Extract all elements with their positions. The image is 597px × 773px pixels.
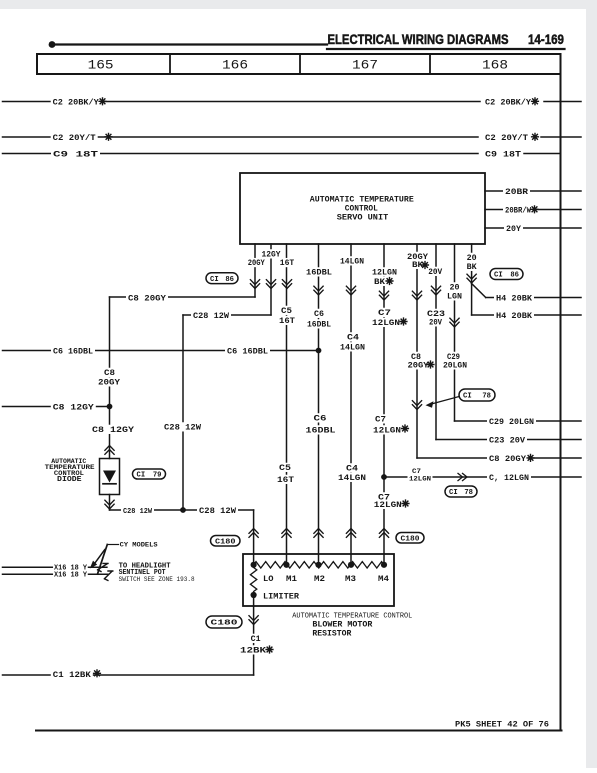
svg-text:14LGN: 14LGN (338, 474, 366, 483)
svg-text:C4: C4 (346, 465, 358, 474)
svg-text:20BR/W: 20BR/W (505, 206, 532, 216)
svg-text:C2 20BK/Y: C2 20BK/Y (53, 98, 100, 108)
svg-text:C6: C6 (314, 310, 324, 319)
svg-text:M4: M4 (378, 575, 389, 584)
svg-text:C28 12W: C28 12W (199, 506, 237, 516)
svg-text:20V: 20V (429, 319, 442, 328)
svg-text:20GY: 20GY (98, 379, 120, 388)
svg-text:CONTROL: CONTROL (345, 205, 378, 214)
svg-text:86: 86 (510, 272, 519, 280)
svg-text:H4 20BK: H4 20BK (496, 294, 533, 304)
svg-text:ELECTRICAL WIRING DIAGRAMS: ELECTRICAL WIRING DIAGRAMS (328, 32, 509, 47)
svg-text:CI: CI (494, 272, 503, 280)
svg-text:20LGN: 20LGN (443, 362, 467, 371)
svg-text:20V: 20V (428, 268, 442, 277)
svg-text:86: 86 (225, 276, 234, 284)
svg-text:C28 12W: C28 12W (123, 508, 152, 516)
svg-text:16DBL: 16DBL (306, 269, 332, 278)
svg-text:C8 12GY: C8 12GY (92, 426, 134, 435)
svg-text:CI: CI (463, 393, 472, 401)
svg-text:C, 12LGN: C, 12LGN (489, 473, 529, 483)
svg-text:14LGN: 14LGN (340, 258, 364, 267)
svg-text:DIODE: DIODE (57, 476, 82, 484)
svg-text:X16 18 Y: X16 18 Y (54, 572, 88, 580)
svg-text:C8: C8 (104, 369, 115, 378)
svg-text:16T: 16T (277, 476, 294, 485)
svg-text:AUTOMATIC TEMPERATURE: AUTOMATIC TEMPERATURE (310, 196, 414, 205)
svg-text:C8 12GY: C8 12GY (53, 403, 95, 413)
svg-text:SWITCH SEE ZONE 193.8: SWITCH SEE ZONE 193.8 (119, 576, 195, 583)
svg-text:C180: C180 (211, 620, 238, 628)
svg-text:12LGN: 12LGN (373, 427, 401, 436)
svg-text:C5: C5 (279, 464, 291, 473)
svg-text:167: 167 (352, 59, 378, 73)
svg-text:20: 20 (467, 254, 477, 263)
svg-text:C28 12W: C28 12W (164, 424, 201, 433)
svg-text:CY MODELS: CY MODELS (120, 542, 158, 550)
svg-text:16DBL: 16DBL (307, 321, 331, 330)
svg-text:M1: M1 (286, 575, 297, 584)
svg-text:M3: M3 (345, 575, 356, 584)
svg-text:LGN: LGN (447, 293, 462, 302)
svg-text:20: 20 (450, 284, 460, 293)
svg-text:C4: C4 (347, 334, 359, 343)
svg-text:16T: 16T (280, 259, 295, 268)
svg-text:C8 20GY: C8 20GY (128, 294, 167, 304)
svg-text:C180: C180 (401, 535, 420, 543)
svg-text:BK: BK (374, 278, 385, 287)
svg-text:16DBL: 16DBL (306, 427, 336, 436)
svg-text:78: 78 (464, 489, 473, 497)
svg-text:C1: C1 (251, 635, 261, 644)
svg-text:H4 20BK: H4 20BK (496, 311, 533, 321)
svg-text:20Y: 20Y (506, 224, 522, 234)
svg-text:165: 165 (88, 59, 114, 73)
svg-text:78: 78 (482, 393, 491, 401)
svg-text:C5: C5 (281, 307, 292, 316)
svg-text:CI: CI (210, 276, 219, 284)
svg-text:12LGN: 12LGN (372, 319, 400, 328)
svg-text:166: 166 (222, 59, 248, 73)
svg-text:C23 20V: C23 20V (489, 436, 526, 446)
svg-text:C6: C6 (314, 415, 327, 424)
svg-text:14-169: 14-169 (528, 32, 564, 47)
svg-text:12BK: 12BK (240, 647, 266, 656)
svg-text:C2 20BK/Y: C2 20BK/Y (485, 98, 532, 108)
svg-text:C29 20LGN: C29 20LGN (489, 417, 534, 427)
svg-text:C8 20GY: C8 20GY (489, 454, 527, 464)
svg-text:LO: LO (263, 575, 274, 584)
svg-text:168: 168 (482, 59, 508, 73)
svg-text:C9 18T: C9 18T (485, 150, 521, 160)
svg-text:RESISTOR: RESISTOR (312, 629, 352, 639)
svg-text:79: 79 (153, 472, 162, 480)
svg-text:C6 16DBL: C6 16DBL (227, 347, 268, 357)
svg-text:C1 12BK: C1 12BK (53, 670, 92, 680)
svg-text:C2 20Y/T: C2 20Y/T (53, 133, 96, 143)
svg-text:12LGN: 12LGN (374, 501, 402, 510)
svg-text:C7: C7 (378, 309, 391, 318)
svg-text:CI: CI (449, 489, 458, 497)
svg-text:20BR: 20BR (505, 187, 529, 197)
svg-text:C9 18T: C9 18T (53, 150, 98, 160)
svg-text:12LGN: 12LGN (372, 269, 397, 278)
svg-text:C2 20Y/T: C2 20Y/T (485, 133, 528, 143)
svg-text:C180: C180 (215, 538, 236, 546)
svg-text:14LGN: 14LGN (340, 344, 365, 353)
svg-text:16T: 16T (279, 317, 295, 326)
svg-text:20GY: 20GY (248, 259, 265, 268)
svg-text:C7: C7 (375, 416, 386, 425)
svg-text:SERVO UNIT: SERVO UNIT (337, 214, 389, 223)
svg-text:PK5 SHEET 42 OF 76: PK5 SHEET 42 OF 76 (455, 721, 549, 730)
svg-text:20GY: 20GY (408, 362, 429, 371)
svg-text:M2: M2 (314, 575, 325, 584)
svg-text:LIMITER: LIMITER (263, 593, 299, 602)
svg-text:C7: C7 (412, 468, 421, 475)
svg-text:BK: BK (467, 263, 477, 272)
svg-text:C28 12W: C28 12W (193, 311, 230, 321)
svg-text:C6 16DBL: C6 16DBL (53, 347, 93, 357)
svg-text:12LGN: 12LGN (409, 476, 431, 483)
svg-text:CI: CI (137, 472, 146, 480)
